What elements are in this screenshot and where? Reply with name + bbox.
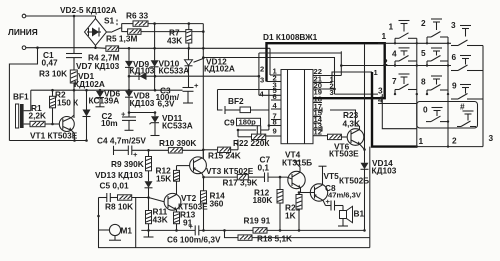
wire VT6 collector: [330, 110, 360, 126]
capacitor C8 47m/6,3V: [325, 183, 362, 211]
transistor VT3 КТ502Е: [190, 150, 254, 177]
button 3: [451, 20, 483, 46]
svg-text:R3 10K: R3 10K: [39, 69, 67, 79]
svg-text:43K: 43K: [153, 215, 168, 225]
button 9: [451, 81, 483, 100]
resistor R12 180K: [253, 177, 284, 230]
transistor VT1 КТ503Е: [30, 115, 78, 141]
wire nested rect right to row2: [340, 51, 342, 75]
node junctions rail H1: [147, 229, 150, 232]
resistor R11 43K: [146, 198, 168, 231]
wire keypad left link: [382, 94, 417, 129]
keypad column wire 2: [447, 37, 449, 147]
resistor R6 33: [122, 11, 204, 27]
resistor R23 4,3K: [328, 110, 361, 140]
svg-text:43K: 43K: [167, 36, 182, 46]
svg-text:КД103: КД103: [372, 166, 397, 176]
svg-text:VT5: VT5: [324, 171, 340, 181]
svg-text:6,3V: 6,3V: [158, 99, 176, 109]
button #: [457, 102, 476, 127]
button 2: [421, 18, 448, 43]
IC left pin stubs and numbers: [218, 67, 282, 137]
svg-text:КД102А: КД102А: [74, 79, 105, 89]
resistor R3 10K: [39, 69, 77, 119]
IC right pin stubs and numbers: [313, 67, 341, 136]
svg-text:R6 33: R6 33: [126, 11, 149, 21]
loudspeaker B1: [338, 206, 364, 227]
resistor R21 1K: [285, 191, 302, 230]
node junctions keypad: [394, 42, 396, 44]
zener VD11 КС533А: [150, 111, 193, 135]
node junction VD10 top: [153, 47, 156, 50]
svg-text:47m/6,3V: 47m/6,3V: [328, 191, 362, 200]
capacitor C6 100m/6,3V (in rail): [167, 222, 221, 245]
resistor R5 1,3M: [106, 29, 203, 44]
svg-text:КС533А: КС533А: [159, 66, 190, 76]
button 0: [423, 105, 448, 122]
button 7: [392, 74, 417, 94]
diode VD1 (symbol): [83, 90, 91, 142]
svg-text:4,3K: 4,3K: [343, 119, 361, 129]
button 8: [421, 76, 448, 94]
svg-text:+: +: [326, 197, 331, 206]
node junction R7 bottom: [188, 47, 191, 50]
resistor R1 2,2K: [29, 103, 60, 127]
node junction VD8/C2: [128, 111, 131, 114]
capacitor C2 10m: [101, 110, 136, 131]
node junction C1 top: [73, 15, 76, 18]
svg-text:+: +: [194, 81, 199, 90]
svg-text:+: +: [133, 150, 138, 159]
svg-text:R10 390K: R10 390K: [159, 138, 196, 148]
resistor R19 91 (in rail): [244, 216, 271, 234]
capacitor C9 180: [224, 118, 270, 135]
resistor R14 360: [201, 176, 226, 231]
svg-text:VD7 КД103: VD7 КД103: [76, 61, 120, 71]
svg-text:VD2-5 КД102А: VD2-5 КД102А: [60, 5, 117, 15]
wire VT3 emitter line: [204, 176, 238, 178]
svg-text:КТ315Б: КТ315Б: [282, 158, 312, 168]
transistor VT6 КТ503Е: [329, 126, 365, 159]
node junction R10/VT3 collector: [202, 149, 205, 152]
svg-text:15K: 15K: [156, 174, 171, 184]
svg-text:2,2K: 2,2K: [29, 111, 47, 121]
svg-text:0: 0: [423, 105, 428, 115]
resistor R15 24K: [203, 140, 240, 161]
zener VD10 КС533А: [149, 24, 189, 91]
wire bottom return H3: [99, 230, 370, 248]
svg-text:12: 12: [314, 127, 322, 136]
resistor R12 15K: [156, 166, 190, 191]
wire bold column drop: [372, 72, 417, 147]
wire bottom rail left section: [9, 140, 86, 142]
wire nested rect pin5: [259, 52, 341, 54]
diode VD7 КД103: [74, 58, 259, 80]
resistor R2 150K: [50, 90, 80, 125]
node junction lower-left: [36, 46, 39, 49]
svg-text:7: 7: [392, 76, 397, 86]
node junction C7/R12': [279, 176, 282, 179]
diode VD9 КД103: [125, 48, 155, 90]
diode VD13 КД103: [95, 170, 153, 198]
node junction R1/R2/VT1 base: [51, 123, 54, 126]
wire VT4 collector terminal: [297, 164, 301, 168]
svg-text:VD13 КД103: VD13 КД103: [95, 170, 143, 180]
resistor R18 5,1K: [225, 230, 370, 243]
capacitor C4 4,7m/25V: [97, 136, 168, 160]
svg-text:КС533А: КС533А: [162, 121, 193, 131]
wire top line: [26, 15, 96, 17]
resistor R9 390K: [111, 150, 152, 181]
resistor R10 390K: [159, 138, 203, 153]
IC D1 К1008ВЖ1: [263, 32, 318, 144]
svg-text:360: 360: [210, 199, 224, 209]
node ЛИНИЯ (line terminals): [8, 14, 38, 49]
wire H-second to row3: [203, 58, 334, 95]
svg-text:M1: M1: [121, 226, 133, 236]
svg-text:C5 0,01: C5 0,01: [100, 181, 129, 191]
svg-text:R8 10K: R8 10K: [105, 202, 133, 212]
diode VD14 КД103: [361, 158, 397, 230]
transistor VT5 КТ502Б: [299, 166, 369, 205]
node junction R5/V198: [202, 30, 205, 33]
node junction R7 top: [188, 22, 191, 25]
svg-text:КД103: КД103: [130, 98, 155, 108]
svg-text:S1: S1: [104, 16, 115, 26]
node junction VT1 emitter/rail: [73, 139, 76, 142]
svg-text:9: 9: [273, 126, 277, 135]
switch S1: [104, 16, 122, 33]
svg-text:2: 2: [421, 18, 426, 28]
node junction VD13/R8 wire: [147, 196, 150, 199]
wire pin21 to column 1: [332, 72, 372, 83]
svg-text:C4 4,7m/25V: C4 4,7m/25V: [97, 136, 146, 146]
zener VD6 КС139А: [89, 89, 121, 107]
button 5: [421, 48, 448, 66]
node junction R6 wire / VD10 chain: [153, 22, 156, 25]
svg-text:8: 8: [273, 117, 277, 126]
wire bottom line: [26, 47, 96, 49]
svg-text:D1 К1008ВЖ1: D1 К1008ВЖ1: [263, 32, 318, 42]
keypad 0/# enclosure: [417, 102, 478, 129]
svg-text:1: 1: [419, 136, 424, 146]
svg-text:КТ503Е: КТ503Е: [329, 149, 359, 159]
svg-text:R19 91: R19 91: [244, 216, 271, 226]
resistor R8 10K: [105, 195, 149, 212]
svg-text:8: 8: [421, 77, 426, 87]
wire pin1 up: [269, 48, 271, 75]
keypad column wire 1: [416, 38, 418, 146]
svg-text:0,47: 0,47: [42, 58, 59, 68]
wire right border down to bottom box: [369, 147, 371, 238]
wire emitter rail VD14: [364, 44, 366, 163]
wire keypad bottom: [417, 146, 483, 148]
svg-text:R5 1,3M: R5 1,3M: [106, 34, 137, 44]
svg-text:10m: 10m: [101, 118, 118, 128]
svg-text:1: 1: [389, 22, 394, 32]
transistor VT2 КТ503Е: [149, 191, 209, 213]
node junction VD9 top: [128, 47, 131, 50]
svg-text:R18 5,1K: R18 5,1K: [257, 234, 292, 244]
wire mic line to rail: [135, 198, 137, 248]
diode VD12 КД102А: [185, 24, 235, 159]
wire left drop: [9, 48, 37, 141]
microphone M1: [97, 198, 132, 241]
svg-text:2: 2: [452, 136, 457, 146]
wire bold pin19 loop: [267, 43, 385, 98]
node junction V198/H48: [202, 47, 205, 50]
svg-text:КТ502Б: КТ502Б: [339, 176, 369, 186]
resistor R22 220К: [233, 129, 270, 148]
svg-text:1: 1: [382, 31, 387, 41]
svg-text:3: 3: [489, 133, 494, 143]
node junction C4/R9: [147, 149, 150, 152]
svg-text:ЛИНИЯ: ЛИНИЯ: [8, 27, 38, 37]
wire C2 to VD11: [129, 112, 155, 114]
capacitor C7 0,1: [258, 155, 288, 183]
resistor R13 91: [174, 210, 196, 231]
svg-text:+: +: [189, 222, 194, 231]
wire rail H1: [141, 229, 195, 231]
button 1: [389, 21, 417, 44]
capacitor C1: [42, 16, 83, 68]
capacitor C3 100m/6,3V: [156, 48, 200, 108]
telephone capsule BF1: [13, 90, 31, 128]
svg-text:1K: 1K: [285, 211, 296, 221]
svg-text:2: 2: [260, 65, 264, 74]
svg-text:180K: 180K: [253, 195, 273, 205]
svg-text:3: 3: [451, 20, 456, 30]
transistor VT4 КТ315Б: [282, 150, 312, 193]
wire row3 link: [335, 93, 379, 95]
svg-text:R9 390K: R9 390K: [111, 159, 144, 169]
svg-text:#: #: [460, 102, 465, 112]
wire top rail of BF1 block: [31, 89, 183, 91]
svg-text:5: 5: [421, 48, 426, 58]
piezo BF2: [218, 90, 269, 131]
resistor R4 2,7M: [88, 46, 270, 63]
svg-text:C9: C9: [224, 118, 235, 128]
node junctions on rail: [51, 89, 54, 92]
svg-text:4: 4: [392, 49, 397, 59]
capacitor C5 0,01: [99, 181, 129, 203]
svg-text:180p: 180p: [239, 118, 257, 127]
svg-text:150 К: 150 К: [57, 98, 79, 108]
svg-text:BF1: BF1: [13, 92, 29, 102]
button 4: [392, 48, 417, 66]
svg-text:9: 9: [452, 81, 457, 91]
svg-text:3: 3: [260, 75, 264, 84]
svg-text:C6 100m/6,3V: C6 100m/6,3V: [167, 235, 221, 245]
svg-text:BF2: BF2: [228, 96, 244, 106]
resistor R7 43K: [167, 24, 192, 49]
diode VD8 КД103: [125, 90, 155, 112]
svg-text:B1: B1: [354, 209, 365, 219]
diode bridge VD2-5 КД102А: [60, 5, 117, 49]
keypad column wire 3: [482, 46, 484, 147]
svg-text:VT1 КТ503Е: VT1 КТ503Е: [30, 131, 78, 141]
ground tick under R11: [148, 230, 150, 236]
resistor R17 3,9K: [223, 174, 265, 187]
svg-text:КД102А: КД102А: [204, 64, 235, 74]
svg-text:6: 6: [452, 52, 457, 62]
svg-text:3: 3: [330, 88, 334, 97]
button 6: [451, 52, 483, 71]
svg-text:0,1: 0,1: [258, 163, 270, 173]
